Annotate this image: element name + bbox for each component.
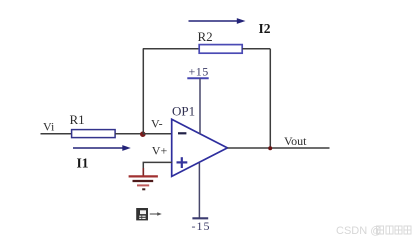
wire: feedback top right segment — [242, 48, 270, 50]
svg-text:I1: I1 — [77, 156, 89, 171]
wire: input from Vi to R1 — [41, 133, 73, 135]
svg-text:OP1: OP1 — [172, 104, 195, 119]
op-amp U1 (OP1) triangle — [172, 119, 228, 176]
current arrow I2 — [189, 18, 246, 24]
svg-text:Vi: Vi — [43, 120, 55, 134]
wire: node A to op-amp inverting input — [143, 133, 172, 135]
current arrow I1 — [73, 145, 131, 151]
wire: feedback top left segment — [143, 48, 199, 50]
wire: R1 to inverting node — [115, 133, 144, 135]
svg-text:R2: R2 — [198, 29, 213, 44]
+15 supply rail — [187, 78, 208, 134]
wire: op-amp output to Vout — [227, 147, 329, 149]
svg-text:V-: V- — [151, 117, 163, 131]
wire: feedback right vertical — [269, 49, 271, 148]
watermark CSDN — [336, 225, 411, 237]
svg-text:CSDN @: CSDN @ — [336, 225, 381, 237]
svg-text:V+: V+ — [152, 143, 168, 157]
-15 supply rail — [192, 163, 208, 218]
wire: feedback left vertical — [142, 49, 144, 134]
op-amp minus sign — [178, 132, 186, 134]
caption 图一 (figure one) — [136, 208, 162, 220]
wire: non-inverting input to ground — [143, 162, 172, 175]
svg-text:+15: +15 — [189, 65, 209, 79]
node A junction dot (inverting input node) — [140, 131, 146, 137]
resistor R2 — [199, 45, 242, 54]
svg-text:R1: R1 — [70, 112, 85, 127]
node output junction dot — [268, 146, 272, 150]
svg-text:-15: -15 — [192, 219, 211, 233]
op-amp plus sign — [177, 157, 188, 168]
resistor R1 — [72, 130, 116, 138]
svg-text:Vout: Vout — [284, 134, 307, 148]
svg-text:I2: I2 — [259, 21, 271, 36]
ground — [129, 168, 158, 189]
